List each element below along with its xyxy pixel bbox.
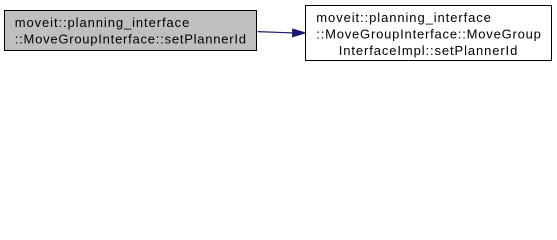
node A: caller box (highlighted) moveit::planning_interface::MoveGroupInterface::setPlannerId	[5, 11, 257, 51]
svg-text:moveit::planning_interface: moveit::planning_interface	[316, 10, 491, 25]
node B: callee box moveit::planning_interface::MoveGroupInterface::MoveGroupInterfaceImpl::setPlannerId	[306, 6, 552, 61]
svg-text:::MoveGroupInterface::setPlann: ::MoveGroupInterface::setPlannerId	[15, 31, 246, 46]
svg-text:moveit::planning_interface: moveit::planning_interface	[15, 15, 190, 30]
arrowhead	[293, 29, 306, 37]
wire: call edge from caller to callee	[258, 29, 306, 37]
svg-text:::MoveGroupInterface::MoveGrou: ::MoveGroupInterface::MoveGroup	[316, 26, 541, 41]
svg-text:InterfaceImpl::setPlannerId: InterfaceImpl::setPlannerId	[339, 43, 518, 58]
